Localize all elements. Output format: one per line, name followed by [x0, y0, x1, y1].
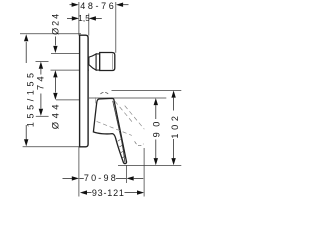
dashed swing arc — [100, 92, 109, 94]
knob cylinder — [100, 53, 115, 71]
knob face chamfer line — [111, 54, 113, 70]
dashed raised lever underside — [97, 121, 132, 135]
knob face extension line — [115, 2, 117, 53]
svg-text:155/155: 155/155 — [26, 69, 36, 127]
knob top extension line — [51, 52, 89, 54]
lever tip level extension line — [118, 164, 181, 166]
knob collar ring — [96, 54, 100, 70]
svg-text:Ø24: Ø24 — [51, 12, 61, 35]
dimension 74 — [39, 62, 43, 116]
dimension 48-76 — [70, 3, 129, 7]
lever handle body — [93, 98, 126, 163]
dimension 90 — [154, 98, 158, 165]
svg-text:93-121: 93-121 — [92, 188, 125, 198]
dimension 15 — [67, 16, 102, 20]
svg-text:1,5: 1,5 — [78, 14, 90, 23]
sleeve bottom extension line — [56, 99, 81, 101]
dashed raised lever tip curve — [135, 141, 144, 145]
lever blade hatch ticks — [118, 139, 126, 157]
knob bottom extension line — [51, 69, 90, 71]
lever blade inner edge line — [113, 101, 125, 162]
pivot tick mark — [94, 97, 96, 103]
svg-text:74: 74 — [36, 73, 47, 90]
escutcheon plate edge view — [80, 35, 89, 147]
dashed raised lever outer line — [125, 106, 145, 130]
dimension 93-121 — [80, 190, 144, 194]
plate top extension line — [20, 33, 81, 35]
plate front extension line — [88, 14, 90, 36]
knob cone neck — [89, 54, 96, 70]
raised lever tip vertical extension — [143, 148, 145, 197]
lever centerline extension — [36, 115, 49, 117]
dimension 70-98 — [63, 176, 144, 180]
lever top extension line — [89, 97, 166, 99]
plate bottom extension line — [23, 146, 80, 148]
svg-text:90: 90 — [152, 116, 162, 137]
dimension stack Ø24 / Ø44 — [53, 37, 57, 101]
wall extension line lower segment — [78, 147, 80, 197]
dimension 155/155 — [24, 34, 28, 146]
svg-text:102: 102 — [170, 112, 180, 138]
dashed raised lever inner line — [115, 101, 133, 123]
svg-text:48-76: 48-76 — [80, 1, 116, 11]
wall extension line upper segment — [78, 2, 80, 36]
knob centerline extension — [36, 60, 49, 62]
svg-text:Ø44: Ø44 — [51, 101, 62, 129]
lever tip vertical extension — [125, 165, 127, 183]
dimension 102 — [171, 91, 175, 166]
svg-text:70-98: 70-98 — [84, 173, 118, 183]
swing arc top extension line — [112, 89, 182, 91]
